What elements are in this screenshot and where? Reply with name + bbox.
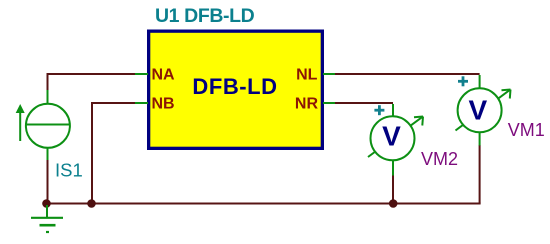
IS1 arrow head — [16, 104, 25, 113]
ground — [31, 205, 63, 232]
node junction dot NB rail — [87, 199, 96, 208]
svg-text:VM1: VM1 — [508, 120, 545, 140]
svg-text:V: V — [382, 121, 401, 152]
svg-text:U1 DFB-LD: U1 DFB-LD — [155, 5, 255, 27]
VM1 plus sign — [458, 76, 468, 86]
svg-text:NL: NL — [296, 67, 318, 84]
wire from VM2 bottom to junction — [392, 175, 394, 204]
svg-text:VM2: VM2 — [421, 149, 458, 169]
pin stub NL — [323, 73, 335, 75]
svg-text:NA: NA — [152, 67, 176, 84]
pin stub NR — [323, 102, 335, 104]
voltmeter VM1 — [456, 75, 511, 146]
op-amp-box component U1 DFB-LD — [149, 31, 323, 148]
svg-text:NB: NB — [152, 96, 175, 113]
wire from VM1 bottom to rail corner — [479, 145, 481, 204]
svg-text:NR: NR — [295, 96, 319, 113]
current source IS1 — [20, 90, 70, 160]
svg-text:IS1: IS1 — [55, 160, 83, 181]
wire from pin NL to VM1 top — [335, 73, 480, 75]
wire from IS1 top to pin NA — [48, 74, 136, 91]
pin stub NA — [135, 73, 148, 75]
wire bottom ground rail — [47, 203, 481, 205]
svg-text:V: V — [469, 94, 488, 125]
wire from pin NR to VM2 top — [335, 102, 393, 104]
voltmeter VM2 — [368, 104, 423, 176]
pin stub NB — [135, 102, 148, 104]
VM2 plus sign — [374, 105, 384, 115]
node junction dot VM2 rail — [389, 199, 398, 208]
wire from IS1 bottom to ground junction — [47, 160, 49, 204]
node junction dot at ground — [42, 199, 51, 208]
svg-text:DFB-LD: DFB-LD — [192, 74, 277, 99]
wire from pin NB down to bottom rail — [92, 103, 135, 204]
